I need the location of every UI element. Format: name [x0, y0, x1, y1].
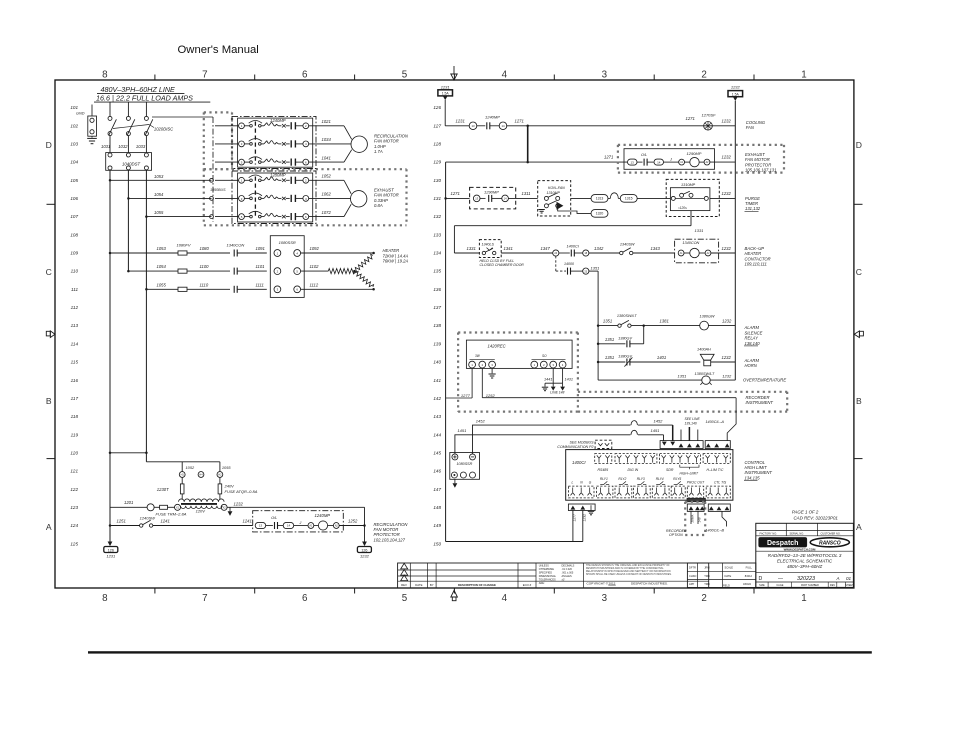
svg-text:1351: 1351 — [605, 337, 614, 342]
svg-text:1034: 1034 — [322, 137, 332, 142]
overtemperature light 1380SW/LT — [702, 376, 710, 384]
svg-text:143: 143 — [433, 414, 441, 419]
svg-text:D: D — [856, 140, 862, 150]
wire 1452 line 143 — [473, 425, 631, 453]
svg-text:1054: 1054 — [157, 264, 167, 269]
svg-text:14: 14 — [657, 160, 661, 164]
svg-text:125: 125 — [70, 541, 78, 546]
svg-text:121: 121 — [70, 469, 78, 474]
svg-text:1232: 1232 — [722, 374, 732, 379]
control power strip — [568, 504, 595, 511]
contactor 1240MP row 2 (poles 3-4) — [215, 143, 238, 145]
recorder option fence — [685, 501, 705, 503]
svg-text:B: B — [46, 396, 52, 406]
relay terminals RLY3 — [633, 486, 650, 498]
svg-text:1315: 1315 — [625, 197, 633, 201]
svg-text:1230T: 1230T — [157, 487, 169, 492]
svg-text:102: 102 — [70, 123, 78, 128]
svg-text:180022: 180022 — [743, 583, 752, 586]
recirculation fan motor — [351, 136, 367, 152]
svg-text:141: 141 — [433, 378, 441, 383]
svg-text:1271: 1271 — [515, 119, 524, 124]
svg-text:J: J — [299, 521, 302, 525]
svg-text:1055: 1055 — [222, 465, 231, 470]
svg-text:OVERTEMPERATURE: OVERTEMPERATURE — [743, 377, 786, 382]
svg-text:1062: 1062 — [322, 192, 332, 197]
svg-text:PART NUMBER: PART NUMBER — [801, 584, 819, 587]
svg-text:RLY5: RLY5 — [673, 477, 681, 481]
svg-text:1241: 1241 — [161, 519, 170, 524]
wire 1232 drop to sheet 2 — [364, 507, 366, 541]
svg-text:1400CI: 1400CI — [567, 245, 580, 249]
wire 1054 row 106 — [127, 197, 130, 200]
svg-text:TMB: TMB — [704, 582, 710, 586]
svg-text:8: 8 — [102, 70, 108, 81]
svg-text:A: A — [836, 576, 840, 581]
wire 1351 line 140 — [597, 361, 600, 364]
revision triangles — [401, 563, 408, 569]
zone column ticks top — [154, 75, 156, 81]
svg-text:2: 2 — [701, 593, 706, 604]
KON-FAN relay 1310MP dashed box — [538, 181, 571, 216]
svg-text:112: 112 — [71, 305, 79, 310]
protector coil line 129 — [690, 157, 699, 166]
wire 1231 line 127 — [445, 125, 469, 127]
wire rail A to C jog — [110, 452, 146, 454]
recorder wire 1252 — [481, 368, 483, 398]
phase rail C — [145, 170, 147, 462]
terminal strip line 144 — [660, 441, 703, 449]
svg-text:4: 4 — [502, 593, 508, 604]
PROC OUT terminals — [687, 486, 703, 498]
svg-text:1054: 1054 — [154, 192, 164, 197]
svg-text:1340SW: 1340SW — [620, 243, 635, 247]
control instrument 1400CI box — [566, 450, 733, 501]
contactor group 1240MP dash-dot enclosure — [232, 116, 316, 168]
svg-text:1380SW/LT: 1380SW/LT — [695, 372, 715, 376]
svg-text:1441: 1441 — [544, 377, 552, 381]
phase rail A — [109, 170, 111, 542]
svg-text:1091: 1091 — [256, 246, 265, 251]
contactor 1280MP row 1 (poles 1-2) — [215, 179, 238, 181]
fuse TRM-2.8A — [154, 506, 160, 508]
svg-text:3: 3 — [602, 593, 608, 604]
svg-text:102,103,104,127: 102,103,104,127 — [374, 537, 406, 542]
recorder ground — [491, 368, 493, 373]
svg-text:1351: 1351 — [603, 319, 612, 324]
centering mark right — [859, 331, 863, 336]
svg-text:123: 123 — [70, 505, 78, 510]
Despatch logo — [759, 538, 807, 548]
protector J link — [294, 525, 308, 527]
svg-text:APP: APP — [689, 582, 694, 586]
svg-text:1021: 1021 — [322, 119, 331, 124]
svg-text:1092: 1092 — [310, 246, 320, 251]
svg-text:1452: 1452 — [654, 419, 664, 424]
svg-text:ARE:: ARE: — [539, 582, 545, 585]
svg-text:D: D — [759, 576, 763, 582]
branch to line 135 — [555, 256, 557, 271]
svg-text:C: C — [46, 267, 52, 277]
door limit switch 1340LS — [479, 240, 501, 258]
svg-text:1311: 1311 — [522, 191, 531, 196]
svg-text:D: D — [46, 140, 52, 150]
recorder option strip — [687, 504, 704, 511]
wire 1351 line 139 — [597, 343, 600, 346]
svg-text:CHKD: CHKD — [689, 574, 696, 578]
svg-text:1251: 1251 — [117, 519, 126, 524]
pilot light 1240GW — [147, 504, 154, 511]
svg-text:142: 142 — [433, 396, 441, 401]
wire tag 1313 — [591, 195, 608, 203]
svg-text:1320: 1320 — [596, 212, 604, 216]
protector coil — [314, 525, 319, 527]
switch 1240SW — [140, 524, 143, 527]
svg-text:8/9/12: 8/9/12 — [745, 574, 753, 578]
svg-text:DESPATCH INDUSTRIES.: DESPATCH INDUSTRIES. — [631, 581, 668, 585]
svg-text:1331: 1331 — [467, 246, 476, 251]
wire 1331 routing — [690, 211, 692, 226]
svg-text:REV: REV — [830, 584, 835, 587]
svg-text:1451: 1451 — [457, 428, 466, 433]
svg-text:1401: 1401 — [657, 355, 666, 360]
svg-text:FUSE ATQR–0.8A: FUSE ATQR–0.8A — [225, 489, 258, 494]
svg-text:1.5A: 1.5A — [732, 92, 740, 96]
svg-text:1380GW: 1380GW — [700, 315, 715, 319]
recorder fence bottom rail — [578, 411, 787, 413]
svg-text:HORN: HORN — [745, 363, 758, 368]
svg-text:RELD: RELD — [723, 584, 730, 588]
svg-text:1232: 1232 — [360, 554, 370, 559]
wire 1232 from X2 — [227, 506, 364, 508]
svg-text:1232: 1232 — [722, 119, 732, 124]
contactor 1280MP row 3 (poles 5-6) — [215, 216, 238, 218]
svg-text:SEE MODBUS: SEE MODBUS — [570, 441, 595, 445]
svg-text:CUSTOMER NO.: CUSTOMER NO. — [821, 531, 841, 535]
svg-text:8: 8 — [102, 593, 108, 604]
svg-text:2012: 2012 — [609, 581, 616, 585]
svg-text:1400AH: 1400AH — [697, 348, 711, 352]
svg-text:TMB: TMB — [704, 574, 710, 578]
svg-text:BY: BY — [430, 583, 434, 587]
svg-text:146: 146 — [433, 469, 441, 474]
svg-text:SIZE: SIZE — [759, 584, 765, 587]
svg-text:128: 128 — [433, 142, 441, 147]
zone row ticks left — [47, 203, 56, 205]
rail A drop to sheet 2 — [108, 542, 113, 547]
svg-text:136: 136 — [433, 287, 441, 292]
svg-text:117: 117 — [71, 396, 79, 401]
wire 1102 row 110 with heater element — [301, 270, 329, 272]
svg-text:1033: 1033 — [136, 144, 146, 149]
connector label bar — [687, 498, 705, 502]
svg-text:14: 14 — [501, 124, 505, 128]
svg-text:HIGH–LIMIT: HIGH–LIMIT — [680, 472, 699, 476]
svg-text:01: 01 — [846, 576, 852, 581]
switch 1380SW/LT — [618, 324, 621, 327]
svg-text:1.7A: 1.7A — [374, 149, 383, 154]
svg-text:1342: 1342 — [594, 246, 604, 251]
svg-text:120: 120 — [70, 450, 78, 455]
contact 18 — [574, 252, 582, 254]
svg-text:1340LS: 1340LS — [482, 243, 495, 247]
svg-text:126: 126 — [361, 548, 367, 552]
svg-text:111: 111 — [71, 287, 78, 292]
svg-text:LINE 148: LINE 148 — [550, 391, 564, 395]
svg-text:134,135: 134,135 — [745, 475, 761, 480]
protector coil A1 — [308, 523, 314, 529]
svg-text:1: 1 — [801, 70, 806, 81]
svg-text:1240MP: 1240MP — [270, 118, 286, 123]
svg-text:1232: 1232 — [722, 355, 732, 360]
svg-text:COPYRIGHT ©: COPYRIGHT © — [587, 581, 609, 585]
svg-text:126: 126 — [433, 105, 441, 110]
svg-text:13: 13 — [259, 524, 263, 528]
svg-text:1451: 1451 — [651, 428, 660, 433]
svg-text:1252: 1252 — [486, 393, 496, 398]
svg-text:1340CON: 1340CON — [682, 241, 699, 245]
svg-text:1041: 1041 — [322, 155, 331, 160]
approvals table — [687, 563, 755, 588]
svg-text:1055: 1055 — [157, 282, 167, 287]
svg-text:116: 116 — [71, 378, 79, 383]
svg-text:1102: 1102 — [310, 264, 320, 269]
svg-text:1380SW/LT: 1380SW/LT — [617, 314, 637, 318]
svg-text:1232: 1232 — [722, 246, 732, 251]
svg-text:7: 7 — [202, 70, 207, 81]
wires into distribution block — [109, 136, 111, 153]
svg-text:1271: 1271 — [686, 116, 695, 121]
svg-text:PROC OUT: PROC OUT — [687, 481, 705, 485]
svg-text:1112: 1112 — [310, 282, 319, 287]
svg-text:1232: 1232 — [234, 501, 244, 506]
svg-text:1080SSR: 1080SSR — [279, 240, 296, 245]
svg-text:13: 13 — [631, 160, 635, 164]
svg-text:1341: 1341 — [504, 246, 513, 251]
svg-text:SERIAL NO.: SERIAL NO. — [790, 531, 805, 535]
svg-text:FULL: FULL — [746, 566, 753, 570]
svg-text:108: 108 — [70, 232, 78, 237]
svg-text:132: 132 — [433, 214, 441, 219]
svg-text:SDR: SDR — [666, 468, 674, 472]
wire 1351 line 141 — [598, 379, 702, 381]
svg-text:H–LIM T/C: H–LIM T/C — [707, 468, 724, 472]
wire 1451 line 144 — [455, 435, 631, 454]
wire tag 1320 — [558, 208, 591, 214]
svg-text:138,140: 138,140 — [745, 341, 761, 346]
svg-text:135: 135 — [433, 269, 441, 274]
svg-text:122: 122 — [70, 487, 78, 492]
terminal strip 1400C/L-A — [705, 441, 730, 449]
svg-text:DIG IN: DIG IN — [628, 468, 639, 472]
svg-text:145: 145 — [433, 450, 441, 455]
Ransco logo — [810, 538, 849, 547]
svg-text:148: 148 — [433, 505, 441, 510]
centering mark bottom — [451, 590, 458, 597]
svg-text:HELD CLSD BY FULL: HELD CLSD BY FULL — [480, 259, 515, 263]
recorder wires 1441 1431 — [552, 368, 554, 383]
svg-text:113: 113 — [71, 323, 79, 328]
wire 1343 — [633, 252, 675, 254]
wire 1055 row 107 — [145, 215, 148, 218]
svg-text:SHEET: SHEET — [845, 584, 854, 587]
wire 1351 line 138 — [597, 324, 600, 327]
wire 1311 — [508, 197, 537, 199]
svg-text:DATE: DATE — [725, 574, 732, 578]
svg-text:±1°: ±1° — [562, 579, 566, 582]
svg-text:320223: 320223 — [797, 576, 815, 582]
svg-text:1271: 1271 — [604, 155, 613, 160]
svg-text:14000: 14000 — [564, 262, 574, 266]
svg-text:1400CI: 1400CI — [572, 460, 586, 465]
wire 1112 row 111 — [301, 288, 374, 290]
contact 14 line 127 — [490, 125, 500, 127]
svg-text:RLY3: RLY3 — [637, 477, 645, 481]
svg-text:1053: 1053 — [154, 174, 164, 179]
svg-text:B: B — [856, 396, 862, 406]
contact 13 line 127 — [469, 122, 477, 130]
svg-text:SEE LINE: SEE LINE — [685, 417, 701, 421]
protector contact L1 — [628, 159, 638, 165]
svg-text:1052: 1052 — [186, 465, 195, 470]
svg-text:137: 137 — [433, 305, 441, 310]
svg-text:133: 133 — [433, 232, 441, 237]
svg-text:5: 5 — [402, 593, 408, 604]
svg-text:DESCRIPTION OF CHANGE: DESCRIPTION OF CHANGE — [458, 583, 496, 587]
svg-text:126: 126 — [108, 548, 114, 552]
svg-text:106: 106 — [70, 196, 78, 201]
svg-text:ECO #: ECO # — [523, 583, 532, 587]
svg-text:1270SF: 1270SF — [702, 113, 717, 118]
contactor 1280MP row 2 (poles 3-4) — [215, 197, 238, 199]
wire tag 1315 — [620, 195, 637, 203]
svg-text:1031: 1031 — [101, 144, 110, 149]
wire 1331 line 134 — [454, 252, 479, 254]
wire 1232 drop — [582, 511, 584, 542]
svg-text:120V: 120V — [196, 508, 206, 513]
svg-text:1232: 1232 — [722, 191, 732, 196]
svg-text:5: 5 — [402, 70, 408, 81]
svg-text:1080FV: 1080FV — [177, 242, 191, 247]
svg-text:130: 130 — [433, 178, 441, 183]
protector contact 13 — [255, 522, 266, 528]
svg-text:6: 6 — [302, 70, 308, 81]
CTL T/C terminals — [706, 486, 730, 498]
svg-text:107: 107 — [70, 214, 78, 219]
svg-text:147: 147 — [433, 487, 441, 492]
svg-text:1231: 1231 — [456, 119, 465, 124]
svg-text:FAN: FAN — [746, 125, 755, 130]
svg-text:OPTION: OPTION — [669, 533, 683, 537]
svg-text:1240MP: 1240MP — [485, 115, 500, 120]
svg-text:1232: 1232 — [731, 84, 741, 89]
svg-text:KON–FAN: KON–FAN — [548, 186, 565, 190]
solid state relay 1080SSR — [270, 236, 304, 298]
svg-text:104: 104 — [70, 160, 78, 165]
svg-text:1380GV: 1380GV — [618, 355, 632, 359]
recorder fence enclosure — [458, 331, 578, 333]
drawing frame border — [55, 80, 854, 588]
X2 ground tap — [229, 507, 231, 511]
svg-text:C: C — [856, 267, 862, 277]
disconnect switch 1020DISC — [108, 116, 112, 120]
recirculation fan motor protector 1240MP enclosure — [253, 511, 344, 532]
purge timer dashed enclosure — [666, 179, 719, 216]
protector contact 14 line 129 — [647, 161, 654, 163]
wires to exhaust fan motor — [309, 179, 344, 181]
svg-text:DFTR: DFTR — [689, 566, 696, 570]
svg-text:1280MP: 1280MP — [270, 173, 286, 178]
svg-text:J: J — [669, 158, 672, 162]
svg-text:O/L: O/L — [271, 516, 277, 520]
switch 1340SW — [620, 251, 623, 254]
svg-text:1351: 1351 — [678, 374, 687, 379]
svg-text:1290MP: 1290MP — [687, 151, 702, 156]
svg-text:1232: 1232 — [722, 155, 732, 160]
wire 1241 — [153, 525, 253, 527]
svg-text:1050BUS: 1050BUS — [210, 188, 226, 192]
ground symbol — [91, 136, 93, 137]
svg-text:1052: 1052 — [322, 174, 332, 179]
contactor group 1280MP box — [238, 173, 313, 222]
protector contact 14 — [278, 525, 284, 527]
wires to recirculation fan motor — [309, 125, 344, 127]
svg-text:SO: SO — [542, 354, 547, 358]
sheet reference 126 / 1232 — [357, 547, 371, 553]
svg-text:131,132: 131,132 — [745, 206, 761, 211]
svg-text:7: 7 — [202, 593, 207, 604]
recorder terminals left — [470, 359, 495, 361]
svg-text:1232: 1232 — [582, 514, 586, 522]
svg-text:RLY4: RLY4 — [656, 477, 664, 481]
svg-text:1240SW: 1240SW — [140, 516, 157, 521]
svg-text:1331: 1331 — [695, 228, 704, 233]
protector coil A2 — [328, 525, 334, 527]
relay terminals RLY2 — [615, 486, 632, 498]
wire 1342 — [589, 252, 620, 254]
svg-text:GND: GND — [76, 112, 85, 116]
modbus connector — [595, 440, 612, 448]
svg-text:≈120s: ≈120s — [678, 206, 687, 210]
exhaust fan motor — [351, 191, 367, 207]
svg-text:1040DST: 1040DST — [122, 162, 141, 167]
svg-text:119: 119 — [71, 432, 79, 437]
SSR control 1080SSR — [450, 453, 480, 480]
svg-text:ELECTRICAL SCHEMATIC: ELECTRICAL SCHEMATIC — [777, 558, 833, 563]
bus vertical dash-dot — [212, 117, 214, 222]
svg-text:JRW: JRW — [704, 566, 710, 570]
svg-text:RANSCO: RANSCO — [819, 540, 841, 546]
svg-text:150: 150 — [433, 541, 441, 546]
wire 1053 row 105 — [109, 179, 112, 182]
svg-text:1055: 1055 — [154, 210, 164, 215]
svg-text:2: 2 — [701, 70, 706, 81]
capacitor line 135 — [567, 268, 569, 275]
svg-text:Despatch: Despatch — [767, 540, 799, 547]
svg-text:1351: 1351 — [605, 355, 614, 360]
svg-text:A: A — [856, 522, 862, 532]
wire 1271 line 129 — [446, 161, 628, 163]
wire 1351 bus — [589, 270, 598, 272]
svg-text:1231: 1231 — [106, 554, 115, 559]
svg-text:129: 129 — [433, 160, 441, 165]
svg-text:INSTRUMENT: INSTRUMENT — [746, 400, 774, 405]
wire 1271 line 131 — [444, 197, 447, 200]
protector coil A2 line 129 — [699, 161, 704, 163]
svg-text:SHOWN SHALL BE USED UNLESS CON: SHOWN SHALL BE USED UNLESS CONSENT OF DE… — [586, 573, 672, 576]
svg-text:G: G — [589, 481, 592, 485]
svg-text:0.8A: 0.8A — [374, 203, 383, 208]
